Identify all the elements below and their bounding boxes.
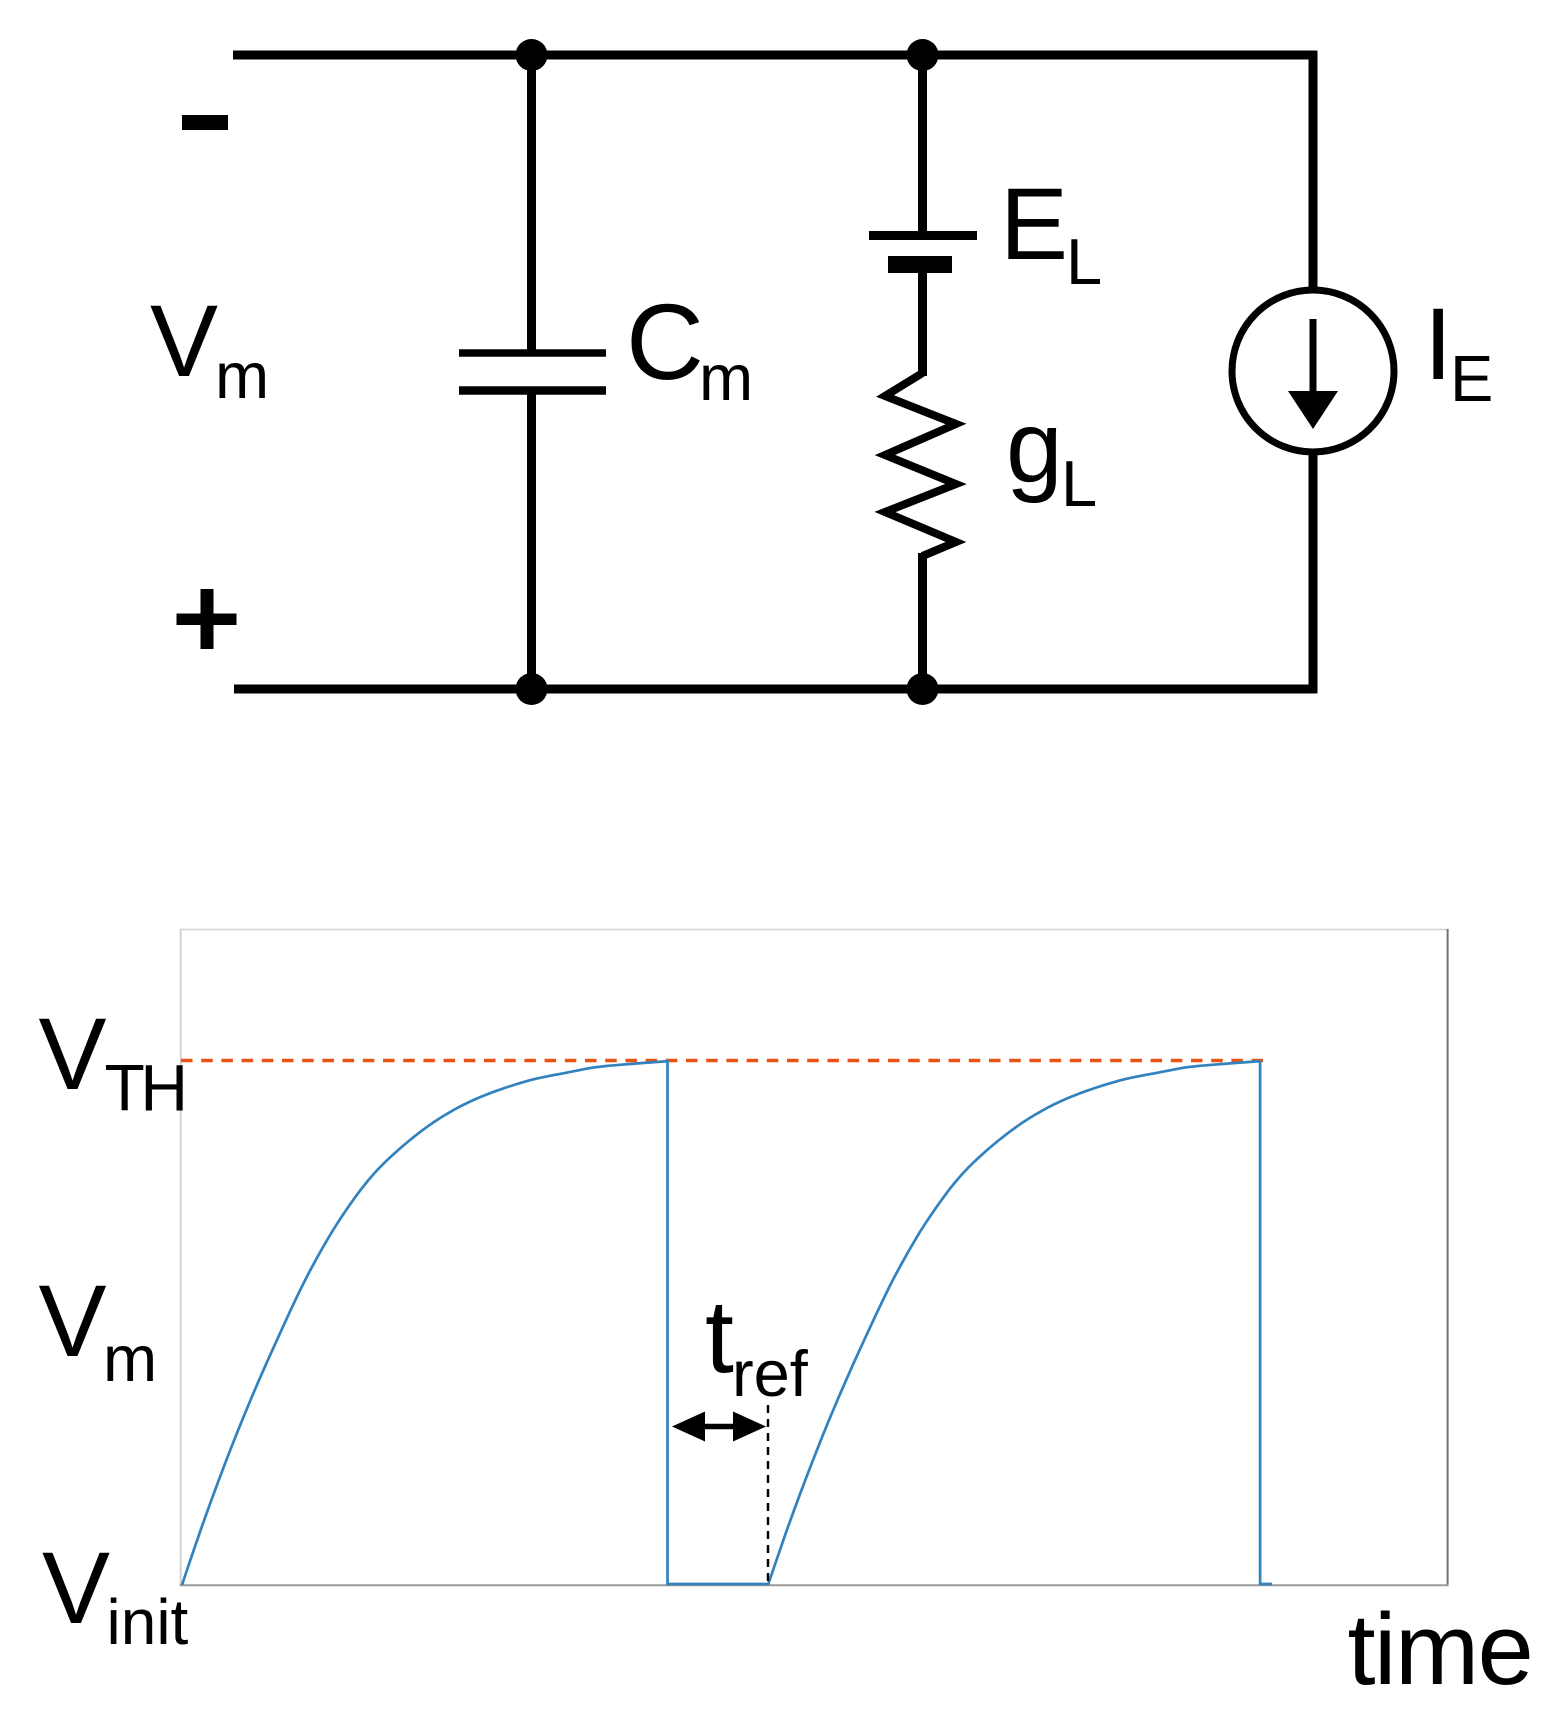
svg-text:L: L bbox=[1066, 225, 1102, 298]
current source IE bbox=[1232, 290, 1394, 452]
wire battery to resistor bbox=[918, 264, 927, 376]
wire capacitor branch upper bbox=[527, 55, 536, 350]
wire bottom rail bbox=[234, 685, 1318, 694]
wire right branch upper bbox=[1309, 51, 1318, 293]
membrane potential trace curve 1 bbox=[182, 1061, 768, 1585]
svg-text:m: m bbox=[699, 341, 753, 414]
wire top rail bbox=[233, 51, 1318, 60]
wire capacitor branch lower bbox=[527, 394, 536, 689]
svg-text:V: V bbox=[39, 1264, 107, 1378]
svg-text:L: L bbox=[1061, 447, 1097, 520]
svg-text:time: time bbox=[1348, 1594, 1533, 1706]
label plus polarity bbox=[177, 589, 237, 649]
svg-text:ref: ref bbox=[732, 1337, 809, 1410]
svg-text:V: V bbox=[150, 284, 218, 398]
svg-text:V: V bbox=[42, 1531, 110, 1645]
resistor gL bbox=[885, 373, 956, 556]
capacitor Cm bbox=[459, 353, 606, 391]
label minus polarity bbox=[182, 115, 228, 130]
threshold dashed line VTH bbox=[181, 1059, 1264, 1063]
tref span double arrow bbox=[672, 1412, 766, 1442]
node junction dot bottom-left bbox=[516, 673, 548, 705]
svg-text:TH: TH bbox=[105, 1051, 184, 1125]
svg-text:g: g bbox=[1006, 390, 1063, 504]
svg-text:E: E bbox=[1450, 342, 1493, 415]
svg-text:m: m bbox=[103, 1322, 157, 1395]
wire resistor branch lower bbox=[918, 553, 927, 689]
svg-text:C: C bbox=[626, 281, 704, 402]
node junction dot top-mid bbox=[907, 39, 939, 71]
wire right branch lower bbox=[1309, 450, 1318, 694]
svg-text:m: m bbox=[215, 339, 269, 412]
node junction dot bottom-mid bbox=[907, 673, 939, 705]
svg-text:E: E bbox=[1000, 167, 1068, 281]
svg-text:V: V bbox=[39, 997, 107, 1111]
plot axes frame bbox=[180, 929, 1449, 1586]
battery EL bbox=[869, 236, 977, 265]
tref end dashed marker line bbox=[767, 1405, 770, 1585]
membrane potential trace curve 2 bbox=[768, 1061, 1272, 1585]
svg-text:I: I bbox=[1424, 287, 1452, 401]
svg-text:t: t bbox=[705, 1279, 734, 1395]
node junction dot top-left bbox=[516, 39, 548, 71]
svg-text:init: init bbox=[107, 1586, 189, 1658]
wire battery branch upper bbox=[918, 55, 927, 240]
